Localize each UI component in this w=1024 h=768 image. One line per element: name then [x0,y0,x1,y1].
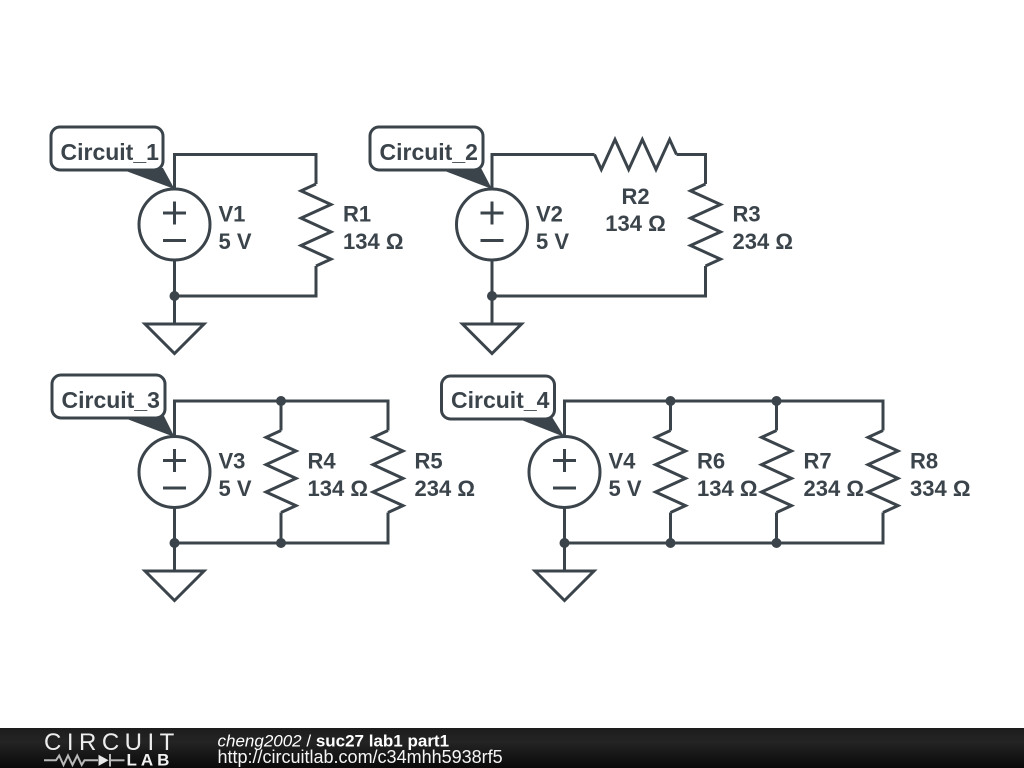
svg-text:Circuit_4: Circuit_4 [451,387,550,413]
svg-text:R4: R4 [308,449,337,474]
svg-text:http://circuitlab.com/c34mhh59: http://circuitlab.com/c34mhh5938rf5 [218,747,503,767]
svg-text:334 Ω: 334 Ω [910,476,970,501]
svg-text:Circuit_1: Circuit_1 [61,139,160,165]
svg-text:V1: V1 [219,202,246,227]
svg-text:5 V: 5 V [219,476,252,501]
svg-text:LAB: LAB [127,751,174,768]
svg-text:5 V: 5 V [609,476,642,501]
svg-text:5 V: 5 V [536,229,569,254]
svg-text:234 Ω: 234 Ω [415,476,475,501]
svg-text:234 Ω: 234 Ω [733,229,793,254]
svg-text:R5: R5 [415,449,443,474]
svg-text:134 Ω: 134 Ω [605,211,665,236]
svg-text:134 Ω: 134 Ω [697,476,757,501]
svg-text:V2: V2 [536,202,563,227]
svg-text:R8: R8 [910,449,938,474]
svg-text:R2: R2 [621,184,649,209]
svg-text:134 Ω: 134 Ω [343,229,403,254]
svg-text:5 V: 5 V [219,229,252,254]
svg-text:V4: V4 [609,449,637,474]
svg-text:Circuit_2: Circuit_2 [380,139,478,165]
svg-text:R3: R3 [733,202,761,227]
svg-text:Circuit_3: Circuit_3 [62,387,160,413]
svg-text:R6: R6 [697,449,725,474]
svg-text:R1: R1 [343,202,371,227]
svg-text:234 Ω: 234 Ω [804,476,864,501]
svg-text:134 Ω: 134 Ω [308,476,368,501]
svg-text:V3: V3 [219,449,246,474]
svg-text:R7: R7 [804,449,832,474]
